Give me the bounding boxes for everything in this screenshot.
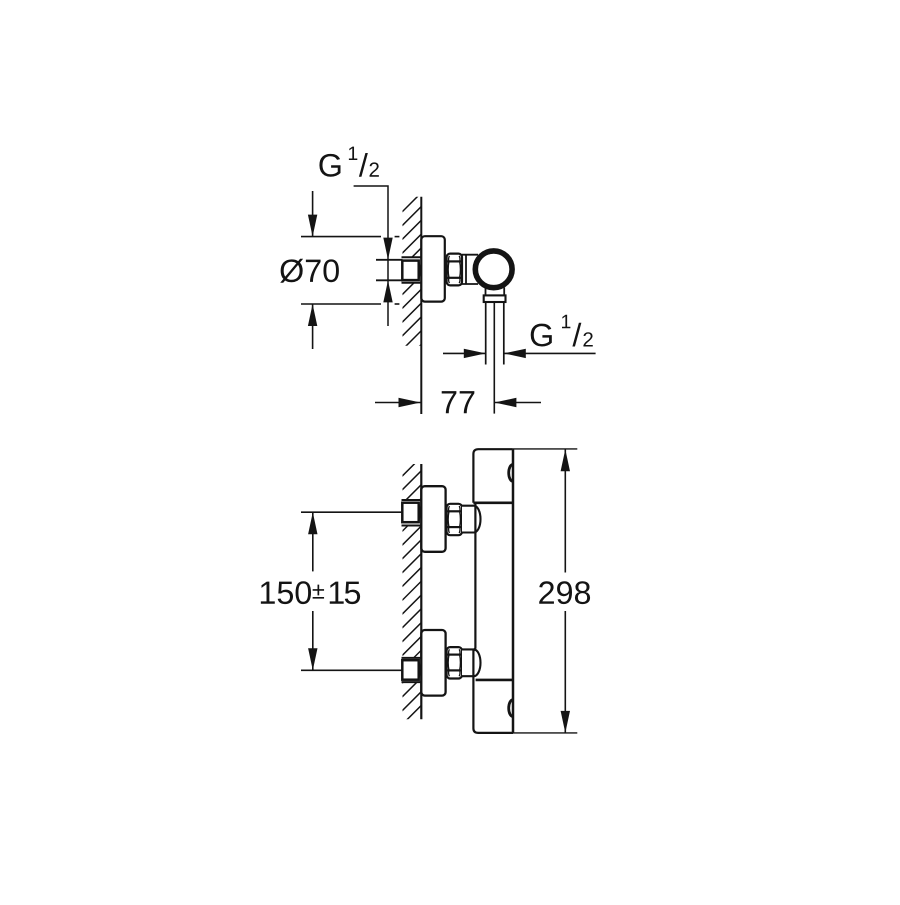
escutcheon flange (top view) [421, 236, 445, 301]
298 label [539, 581, 590, 604]
upper escutcheon (bottom view) [421, 486, 445, 552]
wall hatching (bottom view) [398, 453, 425, 728]
dimension 77 [375, 402, 541, 404]
hose walls [486, 302, 504, 365]
collar / hose connection [484, 295, 506, 302]
dimension G1/2 top: leader [354, 186, 388, 326]
hex union nut (top view) [447, 254, 462, 286]
Ø70 label [280, 259, 339, 283]
dimension G1/2 top: arrowheads [383, 238, 392, 260]
lower fitting band (white over hatch) [402, 657, 422, 682]
square union nut behind wall [402, 261, 420, 281]
dimension G1/2 right [443, 352, 596, 354]
upper dome cap [462, 506, 481, 533]
mixer body: bottom cap bold line [476, 679, 513, 682]
150±15 label [261, 581, 360, 604]
lower square union nut [402, 660, 420, 680]
lower dome cap [462, 649, 481, 676]
mixer body: right edge [512, 449, 515, 733]
dimension 298: extension lines [513, 449, 577, 733]
lower hex union nut [447, 647, 462, 678]
G 1/2 label (right) [531, 315, 593, 347]
dimension Ø70: reference lines [301, 237, 399, 304]
mixer body: left edge (middle + bottom) [473, 503, 513, 733]
lower escutcheon (bottom view) [421, 630, 445, 696]
upper fitting band (white over hatch) [402, 500, 422, 527]
upper square union nut [402, 503, 420, 523]
fitting band through wall (white over hatch) [402, 257, 422, 283]
77 label [442, 391, 475, 413]
hose center line [493, 302, 495, 414]
mixer body: top cap [473, 449, 513, 503]
cylinder between nut and valve [462, 255, 478, 284]
wall surface line (top view) [420, 197, 422, 414]
wall hatching (top view) [398, 189, 425, 368]
G 1/2 label (top) [319, 147, 378, 177]
upper knob notch [509, 464, 513, 481]
valve body circle (top view) [475, 251, 512, 288]
supply pipe stub [376, 260, 403, 281]
upper hex union nut [447, 504, 462, 535]
dimension 298: dim line + arrows [564, 449, 566, 733]
lower knob notch [509, 700, 513, 717]
wall surface line (bottom view) [420, 464, 422, 719]
dimension 150±15: reference lines [301, 512, 403, 670]
dimension Ø70: arrows [312, 191, 314, 349]
dimension 150±15: dim line + arrows [312, 512, 314, 670]
neck below valve [486, 288, 505, 296]
